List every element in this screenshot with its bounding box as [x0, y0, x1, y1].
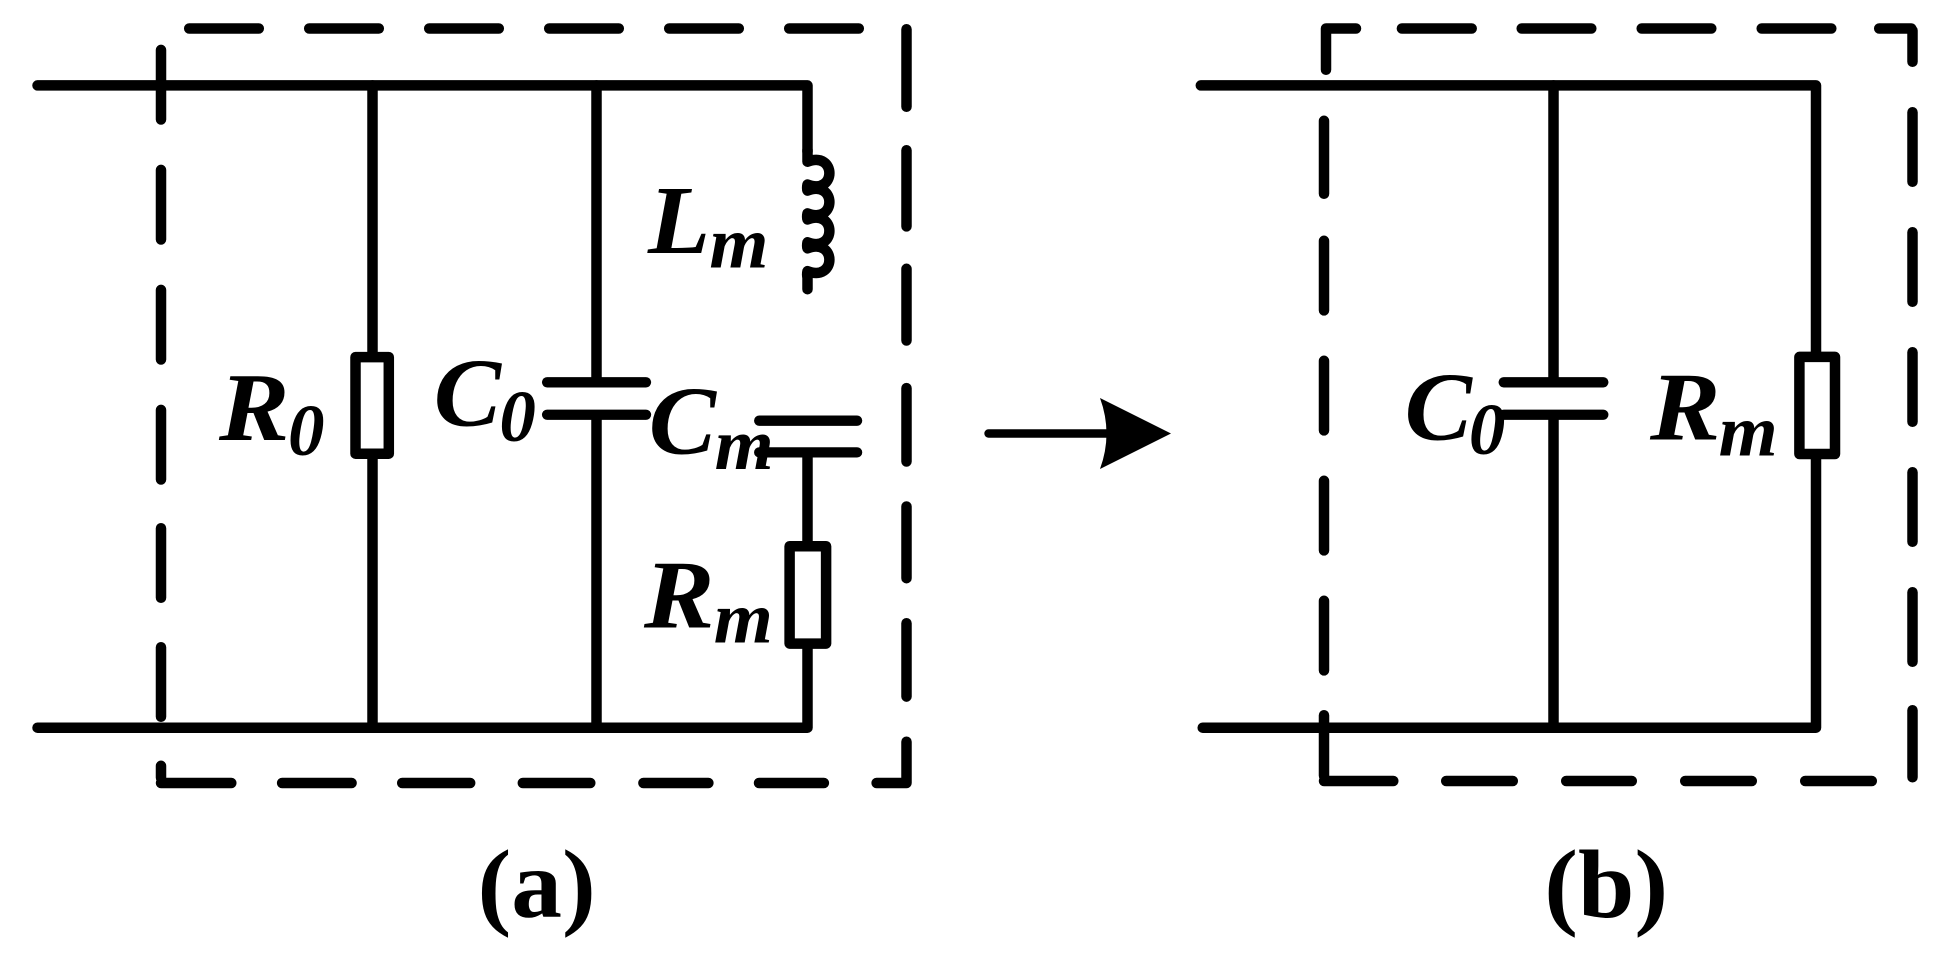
inductor Lm coil — [807, 150, 829, 290]
dashed box (b) top border — [1402, 23, 1831, 34]
svg-text:R: R — [1649, 353, 1721, 460]
wire: top rail (b) into Rm branch — [1201, 85, 1816, 352]
capacitor C0 (a) top plate — [547, 377, 646, 387]
wire: Cm to Rm (a) — [802, 458, 813, 541]
arrow head — [1100, 398, 1171, 469]
capacitor C0 (a) bottom plate — [547, 410, 646, 420]
svg-text:m: m — [715, 405, 774, 485]
wire: top rail (a) into Lm branch — [38, 85, 808, 151]
arrow shaft — [989, 429, 1109, 437]
dashed box (a) left border — [156, 50, 167, 717]
capacitor Cm top plate — [759, 416, 857, 426]
dashed box (a) bottom-right corner dash — [877, 742, 907, 783]
dashed box (a) top border — [189, 23, 859, 34]
svg-text:L: L — [647, 166, 710, 274]
wire: C0 (b) branch upper — [1548, 85, 1559, 377]
svg-text:m: m — [709, 204, 768, 284]
svg-text:m: m — [1719, 392, 1778, 472]
dashed box (a) bottom-left corner dash — [161, 766, 231, 783]
svg-text:0: 0 — [1469, 389, 1506, 470]
dashed box (b) bottom border — [1446, 776, 1872, 787]
svg-text:(a): (a) — [478, 832, 596, 939]
wire: bottom rail (b) up to Rm — [1203, 459, 1816, 728]
capacitor C0 (b) bottom plate — [1504, 410, 1604, 420]
resistor R0 — [356, 357, 389, 454]
wire: R0 branch upper — [367, 85, 378, 352]
svg-text:m: m — [714, 579, 773, 659]
dashed box (b) top-right corner dash — [1879, 29, 1912, 62]
wire: C0 (a) branch lower — [591, 420, 602, 728]
wire: R0 branch lower — [367, 459, 378, 728]
resistor Rm (a) — [790, 546, 827, 643]
wire: bottom rail (a) up to Rm — [38, 649, 808, 728]
dashed box (a) bottom border — [282, 778, 824, 789]
svg-text:R: R — [218, 354, 290, 461]
capacitor C0 (b) top plate — [1504, 377, 1604, 387]
svg-text:C: C — [434, 340, 502, 447]
dashed box (b) bottom-left corner dash — [1324, 715, 1393, 781]
dashed box (b) right border — [1907, 112, 1918, 777]
dashed box (b) left border — [1319, 241, 1330, 671]
svg-text:0: 0 — [499, 376, 536, 457]
svg-text:0: 0 — [288, 390, 325, 471]
dashed box (b) top-left corner dash — [1324, 29, 1356, 194]
wire: C0 (b) branch lower — [1548, 420, 1559, 728]
capacitor Cm bottom plate — [759, 447, 857, 457]
svg-text:C: C — [1405, 354, 1473, 461]
wire: C0 (a) branch upper — [591, 85, 602, 377]
svg-text:(b): (b) — [1544, 832, 1668, 939]
svg-text:R: R — [643, 541, 715, 648]
resistor Rm (b) — [1799, 357, 1835, 454]
dashed box (a) right border — [901, 29, 912, 696]
svg-text:C: C — [649, 368, 717, 475]
